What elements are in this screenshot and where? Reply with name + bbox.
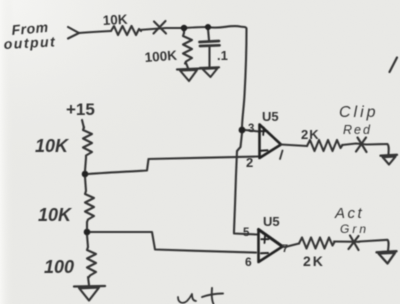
svg-text:U5: U5 [263, 214, 280, 229]
svg-text:Act: Act [334, 205, 364, 222]
svg-text:U5: U5 [262, 109, 279, 124]
svg-text:+15: +15 [66, 100, 95, 119]
svg-text:100K: 100K [144, 48, 177, 65]
svg-text:10K: 10K [35, 136, 70, 156]
svg-text:3: 3 [248, 123, 254, 135]
svg-text:2K: 2K [303, 253, 325, 269]
svg-text:100: 100 [44, 257, 74, 277]
svg-text:5: 5 [243, 227, 250, 239]
svg-text:Clip: Clip [339, 104, 379, 121]
svg-text:7: 7 [282, 243, 288, 255]
svg-text:6: 6 [245, 255, 252, 269]
svg-text:Red: Red [343, 123, 372, 137]
svg-text:2: 2 [246, 155, 253, 170]
svg-text:.1: .1 [217, 48, 228, 63]
svg-text:output: output [3, 33, 56, 52]
svg-text:10K: 10K [102, 12, 128, 28]
svg-text:Grn: Grn [340, 222, 369, 236]
svg-text:10K: 10K [38, 205, 73, 225]
svg-text:2K: 2K [301, 127, 320, 142]
